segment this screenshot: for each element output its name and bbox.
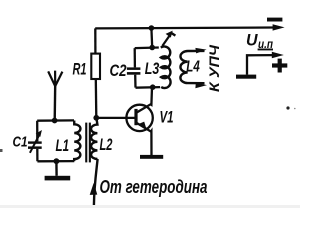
- svg-text:R1: R1: [73, 60, 87, 79]
- svg-text:C1: C1: [13, 134, 28, 151]
- arrow L4 top lead: [195, 48, 206, 54]
- svg-text:L4: L4: [186, 59, 200, 76]
- arrow plus terminal: [272, 52, 284, 58]
- svg-text:U: U: [246, 32, 259, 50]
- inductor L2: [91, 118, 97, 159]
- trimming arrow on L3: [162, 35, 170, 46]
- scan edge bottom: [0, 205, 300, 208]
- collector line: [137, 87, 153, 112]
- svg-text:C2: C2: [110, 61, 127, 80]
- node base: [93, 115, 99, 121]
- capacitor C1 (variable): [36, 121, 38, 142]
- wire top supply rail: [95, 26, 273, 29]
- wire rail to tank: [150, 28, 153, 48]
- speck artifact right side: [286, 106, 289, 109]
- node rail junction: [149, 25, 155, 31]
- speck artifact left edge: [0, 149, 3, 152]
- ground (supply plus): [236, 75, 256, 79]
- wire rail arrow to minus terminal: [273, 24, 285, 30]
- inductor L4: [180, 51, 204, 83]
- transistor V1: [126, 105, 152, 131]
- node tank bottom / ground: [54, 158, 60, 164]
- svg-text:L3: L3: [145, 59, 160, 78]
- transformer core: [85, 123, 87, 163]
- node antenna / tank top: [52, 118, 58, 124]
- svg-text:L1: L1: [56, 136, 70, 155]
- arrow L4 bottom lead: [195, 83, 207, 89]
- wire base: [96, 117, 134, 119]
- antenna: [54, 85, 57, 120]
- resistor R1: [94, 28, 96, 53]
- svg-text:V1: V1: [160, 107, 174, 126]
- arrow from local oscillator (pointing up): [90, 183, 98, 195]
- svg-text:К УПЧ: К УПЧ: [206, 44, 222, 92]
- ground (emitter): [140, 155, 163, 159]
- svg-text:От гетеродина: От гетеродина: [100, 177, 208, 197]
- node tank bottom: [150, 84, 156, 90]
- node tank top: [149, 45, 155, 51]
- minus terminal bar: [267, 18, 282, 22]
- wire from L2 to local oscillator: [94, 159, 98, 206]
- plus sign: [272, 63, 287, 67]
- emitter line with PNP arrow: [137, 123, 152, 155]
- wire plus terminal lead: [247, 55, 273, 75]
- inductor L1 with tank box: [37, 119, 74, 122]
- ground (input tank): [55, 161, 58, 176]
- capacitor C2: [134, 48, 136, 67]
- inductor L3: [135, 48, 160, 88]
- svg-text:L2: L2: [100, 135, 113, 154]
